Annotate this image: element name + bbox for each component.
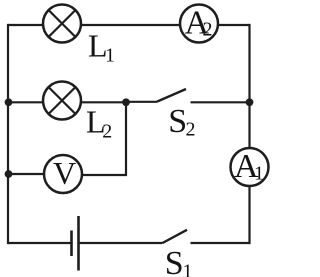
wire row2: left rail to lamp L2 xyxy=(8,101,43,103)
label L2 xyxy=(86,104,112,143)
wire voltmeter right going up to node B xyxy=(82,101,126,175)
lamp L1 xyxy=(43,5,81,43)
lamp L2 xyxy=(43,82,81,120)
junction node B (L2/S2/voltmeter) xyxy=(122,98,130,106)
svg-text:1: 1 xyxy=(254,163,264,185)
ammeter A2 xyxy=(180,4,218,42)
wire left rail xyxy=(7,24,9,244)
switch S1 blade xyxy=(163,230,188,243)
junction node row3-left xyxy=(5,170,13,178)
switch S2 blade xyxy=(157,89,186,102)
wire row2: node B to switch S2 pivot xyxy=(126,101,157,103)
wire battery to switch S1 xyxy=(79,242,163,244)
ammeter A1 xyxy=(231,148,269,186)
svg-text:2: 2 xyxy=(186,118,196,140)
svg-text:1: 1 xyxy=(105,44,115,66)
wire bottom left (to battery) xyxy=(8,242,72,244)
junction node row2-right xyxy=(246,98,254,106)
svg-text:V: V xyxy=(53,155,76,191)
voltmeter V xyxy=(44,155,82,193)
label S1 xyxy=(165,245,193,277)
svg-text:S: S xyxy=(168,103,187,140)
svg-text:S: S xyxy=(165,245,184,277)
battery cell: long plate (positive) xyxy=(77,216,80,271)
wire S1 right contact to corner xyxy=(191,242,250,244)
wire row2: lamp L2 to node B xyxy=(81,101,126,103)
junction node row2-left xyxy=(5,98,13,106)
wire right rail xyxy=(248,24,250,244)
label S2 xyxy=(168,103,195,140)
wire S2 right contact to right rail xyxy=(191,101,250,103)
svg-text:1: 1 xyxy=(183,261,193,277)
wire row3: left rail to voltmeter xyxy=(8,173,44,175)
svg-text:2: 2 xyxy=(203,19,213,41)
wire top rail xyxy=(8,24,250,26)
svg-text:2: 2 xyxy=(102,121,112,143)
label L1 xyxy=(88,28,115,67)
battery cell: short plate (negative) xyxy=(70,231,73,257)
